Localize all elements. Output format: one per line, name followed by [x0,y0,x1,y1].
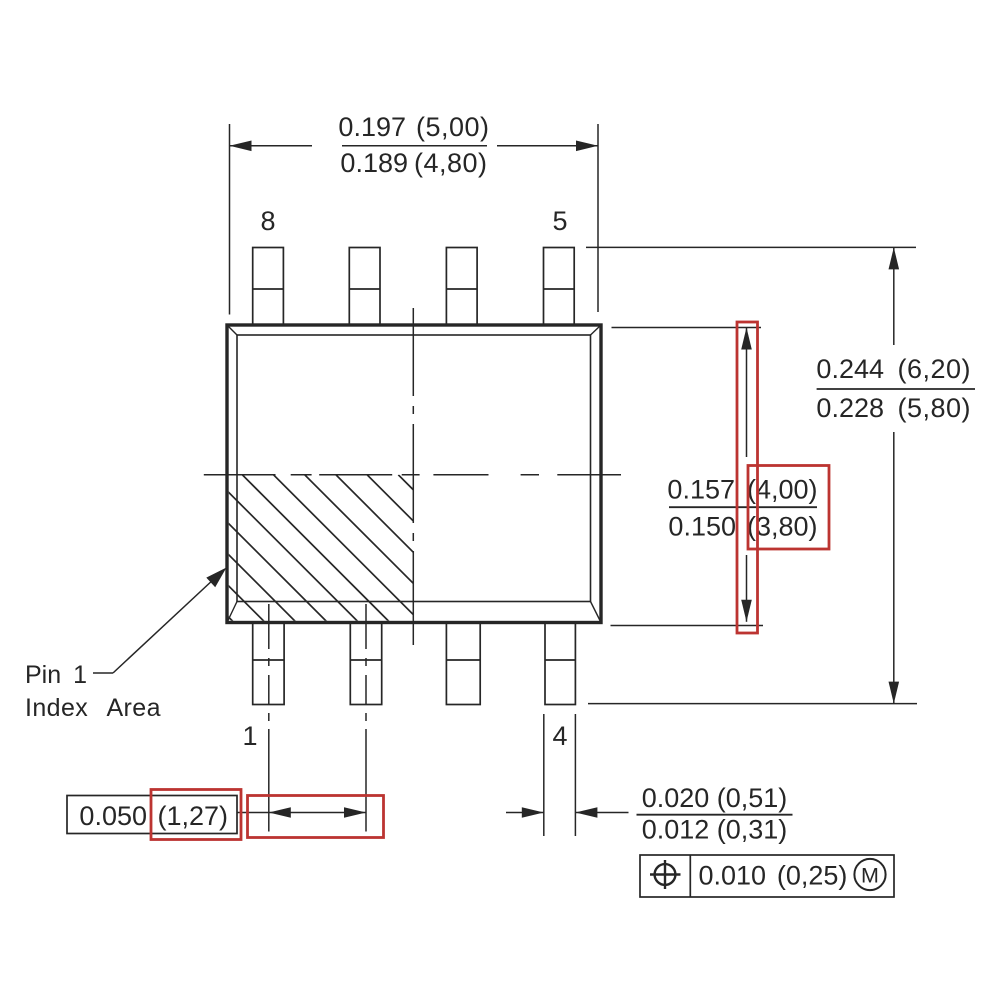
svg-text:Index Area: Index Area [25,694,161,722]
red highlight box around metric body height text [748,466,829,550]
lead 7 shoulder line [349,288,380,290]
top width dimension line left segment [230,145,313,147]
body height dimension top extension line [612,327,762,329]
body chamfer top-right [591,325,602,335]
svg-text:0.010 (0,25): 0.010 (0,25) [699,861,848,891]
top width dimension arrowhead left [230,141,252,152]
overall height dimension line upper segment [893,247,895,345]
feature control frame box [640,855,894,897]
svg-text:M: M [861,863,879,887]
overall height dimension top extension line [586,246,916,248]
svg-text:(6,20): (6,20) [898,354,972,384]
body chamfer top-left [227,325,237,335]
body outline inner rectangle [237,335,591,602]
body chamfer bottom-right [591,602,602,623]
lead 6 top [446,248,477,326]
lead 2 bottom [350,623,381,705]
red highlight box around body height arrow [737,322,758,633]
body height dimension bottom extension line [611,625,764,627]
red highlight box around pitch arrow [248,796,384,838]
vertical centerline [412,308,414,645]
feature control frame divider [689,855,691,897]
svg-text:0.150: 0.150 [668,512,736,542]
horizontal centerline [204,474,621,476]
lead 7 top [349,248,380,326]
pin 1 leader line horizontal [93,672,113,674]
lead pitch arrowhead right [344,807,366,818]
lead 1 shoulder line [253,659,284,661]
lead pitch dimension line [269,812,366,814]
lead 8 top [253,248,284,326]
svg-text:Pin 1: Pin 1 [25,661,87,689]
pin 1 leader line diagonal [113,578,215,673]
svg-text:0.012 (0,31): 0.012 (0,31) [642,815,788,845]
lead 2 centerline extension [365,604,367,832]
overall height dimension arrowhead up [889,247,900,269]
lead 4 width extension line left [543,714,545,836]
svg-text:(5,00): (5,00) [416,112,490,142]
lead 5 shoulder line [544,288,575,290]
lead pitch dimension value box [67,796,237,834]
top width dimension extension line left [229,124,231,315]
overall height dimension fraction bar [817,388,975,390]
lead 4 shoulder line [545,659,575,661]
lead 4 width extension line right [574,714,576,836]
lead 5 top [544,248,575,326]
svg-text:0.244: 0.244 [816,354,884,384]
body height dimension line upper segment [746,328,748,458]
body height dimension fraction bar [669,506,817,508]
overall height dimension bottom extension line [588,703,917,705]
top width dimension line right segment [497,145,598,147]
svg-text:4: 4 [552,721,567,751]
svg-text:0.228: 0.228 [816,393,884,423]
lead 1 centerline extension [268,604,270,832]
svg-text:0.197: 0.197 [338,112,406,142]
svg-text:(4,80): (4,80) [414,148,488,178]
svg-text:8: 8 [260,206,275,236]
svg-text:1: 1 [242,721,257,751]
red highlight box around metric pitch value [151,790,241,840]
lead 6 shoulder line [446,288,477,290]
top width dimension arrowhead right [576,141,598,152]
lead 8 shoulder line [253,288,284,290]
body height dimension line lower segment [746,555,748,622]
svg-text:0.020 (0,51): 0.020 (0,51) [642,783,788,813]
position tolerance symbol [655,864,676,885]
svg-text:5: 5 [552,206,567,236]
body height dimension arrowhead down [741,600,752,622]
svg-text:0.050: 0.050 [79,801,147,831]
lead 4 bottom [545,623,575,705]
maximum material condition symbol [854,859,885,890]
lead width dimension fraction bar [637,814,793,816]
body chamfer bottom-left [227,602,237,623]
lead pitch leader line [237,812,269,814]
svg-text:0.157: 0.157 [667,475,735,505]
svg-text:0.189: 0.189 [340,148,408,178]
body outline outer rectangle [227,325,601,623]
svg-text:(5,80): (5,80) [898,393,972,423]
overall height dimension arrowhead down [889,682,900,704]
lead 3 shoulder line [446,659,480,661]
lead width dimension arrow right [575,812,628,814]
svg-text:(1,27): (1,27) [158,801,229,831]
pin 1 leader arrowhead [206,568,226,588]
lead width dimension arrow left [506,812,544,814]
overall height dimension line lower segment [893,432,895,704]
lead 3 bottom [446,623,480,705]
top width dimension extension line right [597,124,599,312]
lead 2 shoulder line [350,659,381,661]
lead pitch arrowhead left [269,807,291,818]
lead 1 bottom [253,623,284,705]
top width dimension fraction bar [342,145,487,147]
body height dimension arrowhead up [741,328,752,350]
